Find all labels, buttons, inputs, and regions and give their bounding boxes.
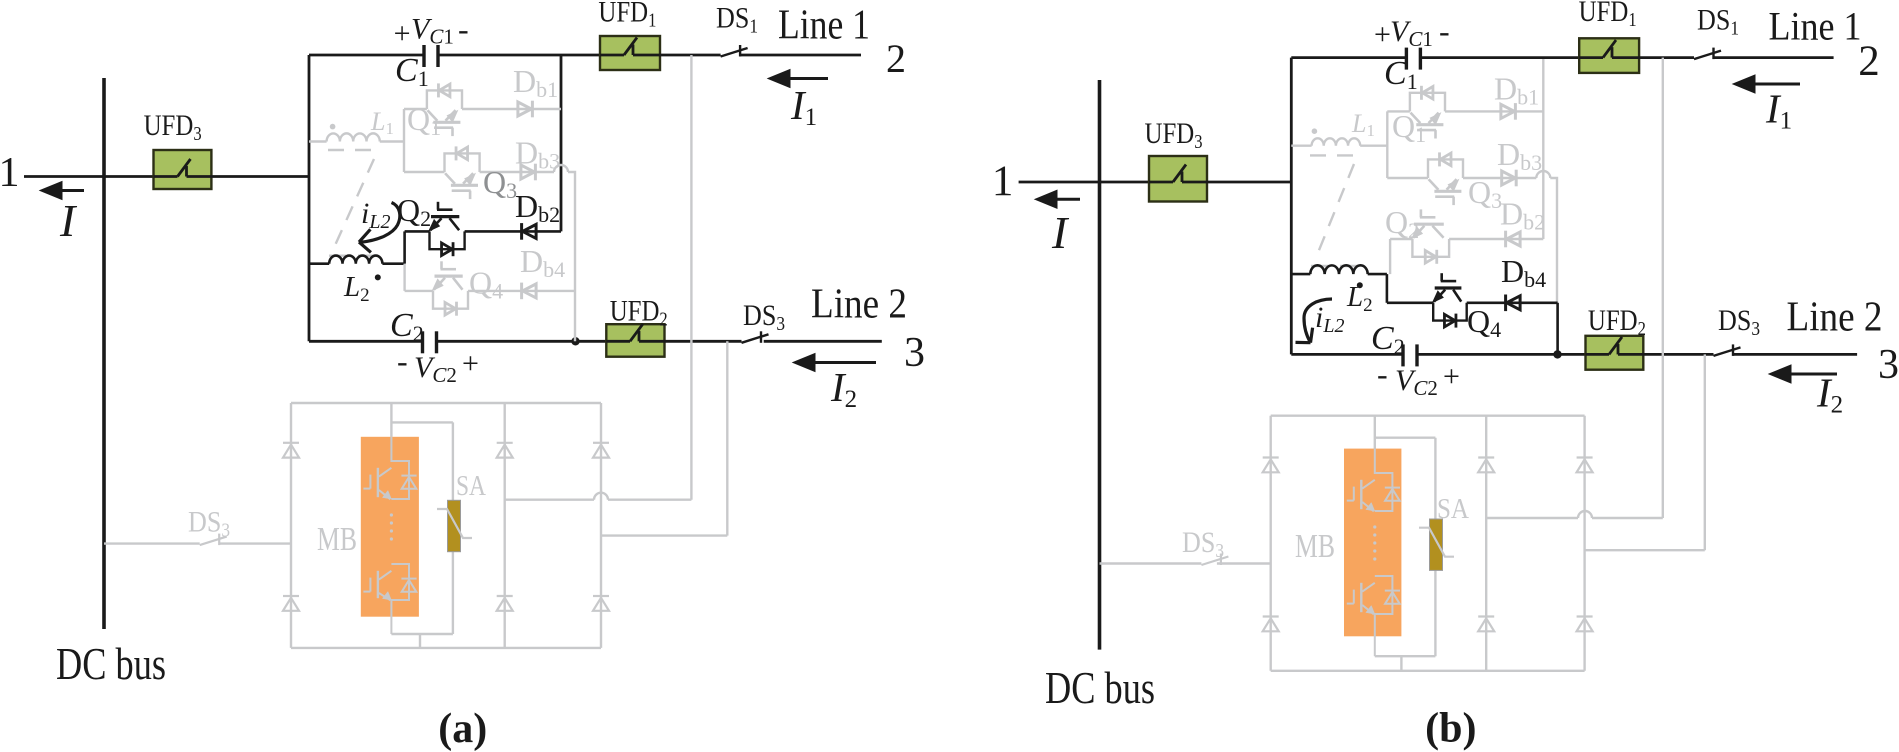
svg-text:3: 3: [1878, 342, 1899, 388]
svg-text:+: +: [1374, 18, 1391, 51]
svg-text:2: 2: [886, 36, 906, 81]
svg-text:+: +: [1443, 360, 1460, 393]
svg-text:I: I: [1051, 207, 1070, 258]
svg-text:2: 2: [1858, 38, 1880, 85]
svg-text:UFD3: UFD3: [144, 109, 202, 145]
svg-text:3: 3: [904, 330, 925, 376]
svg-text:UFD1: UFD1: [598, 0, 656, 32]
svg-text:DC bus: DC bus: [56, 638, 166, 689]
svg-text:Line 2: Line 2: [811, 281, 907, 327]
svg-text:-: -: [458, 11, 469, 47]
svg-text:I: I: [59, 195, 78, 246]
svg-text:UFD2: UFD2: [1588, 304, 1646, 340]
svg-text:Line 1: Line 1: [1769, 4, 1862, 49]
svg-text:-: -: [397, 343, 408, 379]
svg-text:DC bus: DC bus: [1045, 662, 1155, 713]
svg-text:(a): (a): [438, 706, 487, 752]
svg-text:Line 1: Line 1: [778, 3, 870, 49]
svg-text:(b): (b): [1425, 706, 1476, 752]
svg-text:SA: SA: [456, 471, 487, 502]
svg-text:1: 1: [992, 158, 1014, 205]
svg-text:-: -: [1377, 356, 1388, 392]
svg-text:MB: MB: [317, 521, 357, 558]
svg-text:SA: SA: [1437, 494, 1470, 525]
svg-text:Line 2: Line 2: [1787, 295, 1883, 341]
svg-text:UFD1: UFD1: [1579, 0, 1637, 31]
svg-text:+: +: [462, 347, 479, 380]
svg-text:UFD3: UFD3: [1145, 117, 1203, 153]
svg-text:MB: MB: [1295, 528, 1335, 565]
svg-text:UFD2: UFD2: [610, 295, 668, 331]
svg-text:-: -: [1439, 13, 1450, 49]
svg-text:+: +: [394, 17, 411, 50]
svg-text:1: 1: [0, 150, 20, 196]
